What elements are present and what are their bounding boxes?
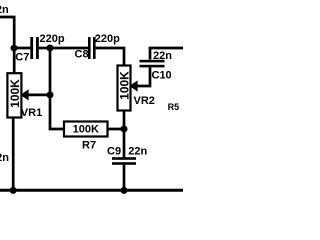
- node B junction: [47, 45, 54, 52]
- wire R7 right to node D: [108, 128, 125, 131]
- svg-text:100K: 100K: [118, 71, 132, 100]
- svg-text:22n: 22n: [153, 50, 172, 62]
- wire VR2 wiper to C10 bottom: [136, 67, 150, 86]
- wire C9 bottom to ground rail: [123, 165, 126, 191]
- wire node A down to VR1 top: [13, 48, 16, 73]
- svg-text:100K: 100K: [8, 79, 22, 108]
- node A junction: [11, 45, 18, 52]
- wire C8 right plate to VR2 top: [96, 48, 124, 66]
- node E junction: [10, 187, 17, 194]
- svg-text:22n: 22n: [0, 152, 9, 164]
- svg-text:R7: R7: [82, 140, 96, 152]
- svg-text:220p: 220p: [40, 33, 65, 45]
- wire C10 top to right edge: [150, 48, 183, 60]
- resistor R7: [64, 122, 108, 152]
- wire node A to C7 left plate: [14, 47, 31, 50]
- potentiometer VR1: [7, 73, 42, 119]
- capacitor C7: [15, 33, 65, 63]
- wire node B to C8 left plate: [50, 47, 88, 50]
- wire ground rail: [0, 189, 183, 192]
- svg-text:100K: 100K: [73, 124, 99, 136]
- capacitor C10: [140, 50, 173, 82]
- svg-text:VR1: VR1: [21, 107, 42, 119]
- svg-text:22n: 22n: [128, 146, 147, 158]
- wire VR1 bottom to ground rail: [12, 117, 15, 190]
- capacitor C9: [107, 146, 148, 165]
- svg-text:C7: C7: [15, 51, 29, 63]
- svg-text:C8: C8: [75, 49, 89, 61]
- svg-text:VR2: VR2: [134, 95, 155, 107]
- svg-text:22n: 22n: [0, 4, 9, 16]
- node C junction: [47, 91, 54, 98]
- wire C7 right plate to node B: [39, 47, 50, 50]
- node F junction: [121, 187, 128, 194]
- potentiometer VR2: [118, 66, 155, 111]
- wire input top-left to node A: [0, 17, 14, 48]
- svg-text:R5: R5: [168, 102, 180, 112]
- wire VR2 bottom through node D to C9 top: [123, 111, 126, 158]
- svg-text:220p: 220p: [95, 33, 120, 45]
- wire node B down through node C to R7 left: [50, 48, 64, 129]
- wire VR1 wiper to node C: [27, 94, 50, 97]
- svg-text:C10: C10: [152, 70, 172, 82]
- capacitor C8: [75, 33, 121, 61]
- svg-text:C9: C9: [107, 146, 121, 158]
- node D junction: [121, 126, 128, 133]
